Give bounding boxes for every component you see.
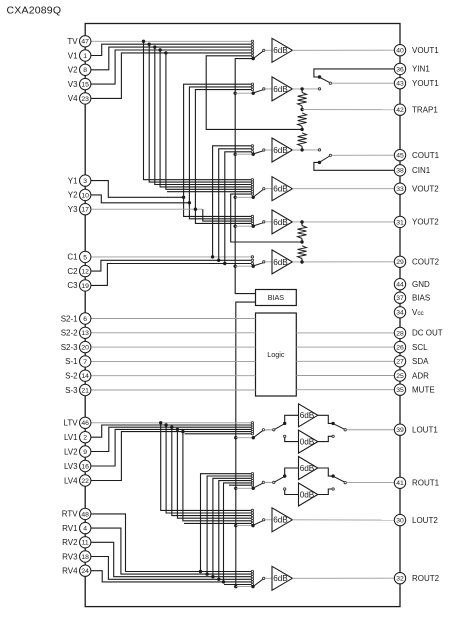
- wire VOUT2 output: [292, 188, 394, 190]
- svg-text:LOUT2: LOUT2: [412, 516, 438, 525]
- svg-text:10: 10: [81, 192, 89, 199]
- svg-text:Y1: Y1: [68, 176, 78, 185]
- pin 34 Vcc: [394, 307, 424, 318]
- pin 46 LTV: [64, 417, 91, 428]
- net video bias bus: [234, 59, 256, 294]
- svg-text:S-1: S-1: [65, 357, 78, 366]
- svg-text:23: 23: [81, 96, 89, 103]
- svg-text:38: 38: [396, 168, 404, 175]
- IC package outline: [85, 24, 400, 607]
- svg-text:LOUT1: LOUT1: [412, 426, 438, 435]
- svg-text:SDA: SDA: [412, 357, 429, 366]
- pin 33 VOUT2: [394, 183, 439, 194]
- svg-text:48: 48: [81, 511, 89, 518]
- pin 32 ROUT2: [394, 573, 439, 584]
- svg-text:16: 16: [81, 463, 89, 470]
- selector switch Y1: [235, 83, 272, 95]
- pin 11 RV2: [62, 537, 91, 548]
- svg-text:V3: V3: [68, 80, 78, 89]
- svg-text:19: 19: [81, 283, 89, 290]
- svg-text:COUT1: COUT1: [412, 151, 440, 160]
- pin 6 S2-1: [61, 313, 91, 324]
- pin 20 S2-3: [61, 341, 91, 352]
- svg-text:Vcc: Vcc: [412, 308, 425, 317]
- svg-text:RV2: RV2: [62, 538, 78, 547]
- wire C3: [91, 152, 251, 286]
- svg-text:YOUT2: YOUT2: [412, 218, 439, 227]
- pin 8 V2: [68, 64, 91, 75]
- pin 24 RV4: [62, 565, 91, 576]
- svg-text:11: 11: [82, 540, 89, 547]
- svg-text:BIAS: BIAS: [412, 294, 430, 303]
- svg-text:RV4: RV4: [62, 567, 78, 576]
- svg-text:GND: GND: [412, 280, 430, 289]
- op-amp 6dB@(298.5,415.3): [299, 404, 318, 427]
- svg-text:6dB: 6dB: [273, 258, 288, 267]
- svg-text:30: 30: [396, 518, 404, 525]
- svg-text:1: 1: [83, 53, 87, 60]
- wire S-1: [91, 360, 256, 362]
- svg-text:RTV: RTV: [62, 510, 79, 519]
- wire VOUT2 selector 6th contact: [167, 191, 251, 193]
- wire LOUT2 selector 6th contact: [184, 522, 251, 524]
- op-amp 6dB@(272.0,50.3): [272, 38, 292, 62]
- selector switch C1: [235, 145, 272, 156]
- svg-text:41: 41: [396, 480, 404, 487]
- wire S-2: [91, 375, 256, 377]
- wire LV2: [91, 426, 251, 516]
- pin 39 LOUT1: [394, 424, 438, 435]
- svg-text:TRAP1: TRAP1: [412, 106, 438, 115]
- switch YOUT1 select: [320, 78, 332, 85]
- pin 14 S-2: [65, 370, 91, 381]
- resistor trap R3 (YC1 node to C1 out): [298, 133, 307, 150]
- pin 29 COUT2: [394, 256, 439, 267]
- svg-text:20: 20: [81, 345, 89, 352]
- pin 30 LOUT2: [394, 514, 438, 525]
- svg-text:LV2: LV2: [64, 447, 78, 456]
- wire CIN1: [314, 161, 394, 171]
- wire SCL: [296, 346, 394, 348]
- resistor trap R2 (TRAP1 to YC1 node): [298, 113, 307, 131]
- net audio bias bus: [234, 302, 255, 588]
- wire LV3: [91, 428, 251, 519]
- wire ROUT2 selector 6th contact: [224, 584, 251, 586]
- svg-text:28: 28: [396, 330, 404, 337]
- pin 26 SCL: [394, 341, 428, 352]
- pin 47 TV: [67, 36, 91, 47]
- svg-text:6dB: 6dB: [300, 411, 315, 420]
- svg-text:43: 43: [396, 81, 404, 88]
- wire ROUT1 selector 6th contact: [229, 484, 251, 486]
- wire VOUT1 output: [292, 49, 394, 51]
- svg-text:5: 5: [83, 254, 87, 261]
- wire LOUT2 output: [292, 519, 394, 521]
- svg-text:6dB: 6dB: [273, 46, 288, 55]
- wire TRAP1: [302, 109, 394, 111]
- svg-text:13: 13: [81, 330, 89, 337]
- svg-text:25: 25: [396, 373, 404, 380]
- svg-text:6dB: 6dB: [273, 85, 288, 94]
- svg-text:LV1: LV1: [64, 433, 78, 442]
- svg-text:27: 27: [396, 359, 404, 366]
- svg-text:ROUT2: ROUT2: [412, 574, 440, 583]
- svg-text:LV4: LV4: [64, 476, 78, 485]
- wire ROUT1 gain-select input: [265, 468, 299, 495]
- wire V3: [91, 48, 251, 187]
- wire V4: [91, 51, 251, 189]
- wire ROUT1 output: [346, 482, 394, 484]
- wire Y1: [91, 84, 251, 216]
- svg-text:Y2: Y2: [68, 191, 78, 200]
- svg-text:LTV: LTV: [64, 419, 79, 428]
- wire C1: [91, 146, 251, 259]
- svg-text:YOUT1: YOUT1: [412, 79, 439, 88]
- svg-text:YIN1: YIN1: [412, 65, 430, 74]
- svg-text:17: 17: [81, 207, 89, 214]
- net YC2 recombined bus: [231, 194, 302, 242]
- svg-text:VOUT2: VOUT2: [412, 185, 439, 194]
- svg-text:V4: V4: [68, 94, 78, 103]
- pin 48 RTV: [62, 508, 91, 519]
- svg-text:45: 45: [396, 153, 404, 160]
- pin 37 BIAS: [394, 292, 430, 303]
- op-amp 6dB@(272.0,88.9): [272, 77, 292, 101]
- net YC1 recombined bus: [206, 56, 302, 130]
- pin 21 S-3: [65, 384, 91, 395]
- svg-text:CIN1: CIN1: [412, 166, 431, 175]
- svg-text:31: 31: [396, 219, 404, 226]
- pin 40 VOUT1: [394, 45, 439, 56]
- svg-text:47: 47: [81, 39, 89, 46]
- resistor R5 (YC2 node to C2 out): [298, 246, 307, 262]
- wire YOUT2 output: [292, 220, 394, 223]
- pin 43 YOUT1: [394, 78, 439, 89]
- svg-text:46: 46: [81, 420, 89, 427]
- block BIAS: [256, 290, 297, 306]
- pin 35 MUTE: [394, 384, 434, 395]
- svg-text:S-3: S-3: [65, 386, 78, 395]
- wire SDA: [296, 360, 394, 362]
- wire COUT1: [332, 154, 395, 156]
- pin 2 LV1: [64, 432, 91, 443]
- pin 13 S2-2: [61, 327, 91, 338]
- selector switch Y2: [235, 215, 272, 228]
- svg-text:MUTE: MUTE: [412, 386, 435, 395]
- svg-text:C2: C2: [67, 267, 78, 276]
- resistor trap R1 (Y1 out to TRAP1): [298, 89, 307, 111]
- svg-text:14: 14: [81, 373, 89, 380]
- op-amp 0dB@(298.5,494.5): [299, 483, 318, 506]
- wire RV2: [91, 478, 251, 578]
- svg-text:COUT2: COUT2: [412, 258, 440, 267]
- svg-text:ADR: ADR: [412, 371, 429, 380]
- svg-text:39: 39: [396, 427, 404, 434]
- svg-text:6dB: 6dB: [273, 574, 288, 583]
- pin 22 LV4: [64, 475, 91, 486]
- svg-text:4: 4: [83, 526, 87, 533]
- wire LOUT1 output: [346, 429, 394, 431]
- pin 38 CIN1: [394, 165, 430, 176]
- pin 27 SDA: [394, 356, 429, 367]
- wire S2-3: [91, 346, 256, 348]
- svg-text:12: 12: [81, 269, 89, 276]
- svg-text:VOUT1: VOUT1: [412, 46, 439, 55]
- svg-text:6dB: 6dB: [273, 516, 288, 525]
- svg-text:18: 18: [81, 554, 89, 561]
- svg-text:6dB: 6dB: [300, 464, 315, 473]
- wire LOUT1 selector 6th contact: [185, 433, 252, 435]
- selector switch LOUT2: [236, 509, 272, 527]
- svg-text:9: 9: [83, 449, 87, 456]
- selector switch ROUT2: [236, 570, 272, 588]
- pin 18 RV3: [62, 551, 91, 562]
- svg-text:37: 37: [396, 295, 404, 302]
- svg-text:32: 32: [396, 576, 404, 583]
- pin 1 V1: [68, 50, 91, 61]
- op-amp 6dB@(272.0,519.8): [272, 508, 292, 532]
- pin 45 COUT1: [394, 150, 439, 161]
- wire YOUT1: [332, 82, 395, 84]
- wire ADR: [296, 375, 394, 377]
- pin 15 V3: [68, 78, 91, 89]
- selector switch LOUT1: [236, 422, 272, 440]
- svg-text:ROUT1: ROUT1: [412, 479, 440, 488]
- svg-text:15: 15: [81, 82, 89, 89]
- selector switch VOUT1: [251, 40, 272, 60]
- wire S2-1: [91, 318, 256, 320]
- selector switch C2: [235, 256, 272, 268]
- svg-text:26: 26: [396, 345, 404, 352]
- svg-text:V1: V1: [68, 51, 78, 60]
- svg-text:44: 44: [396, 282, 404, 289]
- wire Y3: [91, 90, 251, 224]
- svg-text:22: 22: [81, 478, 89, 485]
- wire S-3: [91, 389, 256, 391]
- op-amp 6dB@(272.0,578.3): [272, 566, 292, 590]
- pin 12 C2: [67, 265, 91, 276]
- svg-text:S2-1: S2-1: [61, 314, 78, 323]
- svg-text:42: 42: [396, 107, 404, 114]
- pin 42 TRAP1: [394, 104, 438, 115]
- svg-text:6dB: 6dB: [273, 185, 288, 194]
- svg-text:TV: TV: [67, 37, 78, 46]
- pin 41 ROUT1: [394, 477, 439, 488]
- svg-text:7: 7: [83, 359, 87, 366]
- wire ROUT2 output: [292, 577, 394, 579]
- svg-text:RV3: RV3: [62, 552, 78, 561]
- pin 16 LV3: [64, 460, 91, 471]
- pin 23 V4: [68, 93, 91, 104]
- svg-text:BIAS: BIAS: [268, 293, 285, 302]
- wire Y2: [91, 87, 251, 219]
- wire ROUT1 gain-select output: [318, 468, 347, 495]
- svg-text:0dB: 0dB: [300, 438, 315, 447]
- op-amp 6dB@(272.0,150.0): [272, 138, 292, 162]
- pin 17 Y3: [68, 204, 91, 215]
- wire LV4: [91, 430, 251, 521]
- wire RTV: [91, 474, 251, 574]
- svg-text:21: 21: [81, 387, 89, 394]
- wire TV (pin 47 to VOUT1 selector): [91, 40, 251, 180]
- pin 5 C1: [67, 251, 91, 262]
- svg-text:2: 2: [83, 435, 87, 442]
- op-amp 0dB@(298.5,441.6): [299, 430, 318, 453]
- svg-text:S-2: S-2: [65, 372, 78, 381]
- wire S2-2: [91, 332, 256, 334]
- svg-text:C1: C1: [67, 253, 78, 262]
- svg-text:V2: V2: [68, 66, 78, 75]
- op-amp 6dB@(298.5,468.0): [299, 457, 318, 480]
- wire MUTE: [296, 389, 394, 391]
- wire V1: [91, 43, 251, 183]
- wire RV4: [91, 483, 251, 584]
- wire YIN1: [314, 69, 394, 79]
- wire LOUT1 gain-select input: [265, 415, 299, 441]
- pin 36 YIN1: [394, 63, 430, 74]
- svg-text:C3: C3: [67, 281, 78, 290]
- pin 28 DC OUT: [394, 327, 442, 338]
- wire C2: [91, 149, 251, 271]
- svg-text:CXA2089Q: CXA2089Q: [7, 5, 62, 17]
- op-amp 6dB@(272.0,188.7): [272, 177, 292, 201]
- selector switch VOUT2: [235, 179, 272, 199]
- svg-text:40: 40: [396, 48, 404, 55]
- svg-text:3: 3: [83, 178, 87, 185]
- wire C1 amp output: [292, 148, 320, 151]
- selector switch ROUT1: [236, 473, 272, 490]
- wire RV1: [91, 476, 251, 576]
- svg-text:29: 29: [396, 259, 404, 266]
- svg-text:6dB: 6dB: [273, 146, 288, 155]
- svg-text:33: 33: [396, 186, 404, 193]
- svg-text:S2-3: S2-3: [61, 343, 78, 352]
- svg-text:8: 8: [83, 67, 87, 74]
- svg-text:S2-2: S2-2: [61, 329, 78, 338]
- pin 19 C3: [67, 280, 91, 291]
- svg-text:Y3: Y3: [68, 205, 78, 214]
- wire LV1: [91, 423, 251, 513]
- svg-text:6: 6: [83, 316, 87, 323]
- wire Y1 amp output: [292, 87, 320, 90]
- svg-text:DC OUT: DC OUT: [412, 329, 443, 338]
- wire DC OUT: [296, 332, 394, 334]
- svg-text:34: 34: [396, 310, 404, 317]
- pin 7 S-1: [65, 356, 91, 367]
- pin 10 Y2: [68, 189, 91, 200]
- pin 31 YOUT2: [394, 216, 439, 227]
- wire COUT2 output: [292, 260, 394, 263]
- wire LTV: [91, 421, 251, 510]
- pin 44 GND: [394, 279, 430, 290]
- resistor R4 (Y2 out to YC2 node): [298, 222, 307, 244]
- svg-text:35: 35: [396, 387, 404, 394]
- block Logic: [256, 313, 297, 396]
- op-amp 6dB@(272.0,221.9): [272, 210, 292, 234]
- wire RV3: [91, 481, 251, 581]
- svg-text:Logic: Logic: [267, 350, 285, 359]
- svg-text:SCL: SCL: [412, 343, 428, 352]
- pin 4 RV1: [62, 522, 91, 533]
- svg-text:36: 36: [396, 66, 404, 73]
- svg-text:RV1: RV1: [62, 524, 78, 533]
- svg-text:0dB: 0dB: [300, 490, 315, 499]
- pin 9 LV2: [64, 446, 91, 457]
- svg-text:LV3: LV3: [64, 462, 78, 471]
- svg-text:6dB: 6dB: [273, 218, 288, 227]
- wire LOUT1 gain-select output: [318, 415, 347, 441]
- op-amp 6dB@(272.0,261.9): [272, 250, 292, 274]
- wire V2: [91, 45, 251, 184]
- svg-text:24: 24: [81, 568, 89, 575]
- pin 3 Y1: [68, 175, 91, 186]
- switch COUT1 select: [320, 154, 332, 162]
- pin 25 ADR: [394, 370, 429, 381]
